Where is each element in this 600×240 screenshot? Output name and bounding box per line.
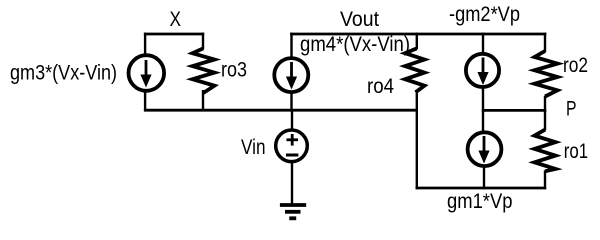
node P rail	[482, 109, 546, 112]
wire gm2-gm1 vertical	[482, 87, 484, 133]
svg-text:ro1: ro1	[564, 140, 588, 163]
wire Vin bottom lead	[291, 161, 293, 205]
current source gm3 (circle)	[129, 55, 165, 91]
svg-text:gm4*(Vx-Vin): gm4*(Vx-Vin)	[300, 33, 410, 56]
wire ro2 bottom lead	[544, 96, 546, 112]
current source gm4 (circle)	[274, 58, 308, 92]
svg-text:gm1*Vp: gm1*Vp	[447, 190, 513, 213]
current source gm2 arrow	[482, 58, 485, 75]
current source gm1 (circle)	[468, 132, 502, 166]
resistor ro1	[535, 130, 556, 172]
wire ro4 bottom lead down to bottom rail	[416, 91, 418, 189]
ground	[280, 203, 306, 207]
wire Vin top lead	[291, 110, 293, 130]
current source gm1 arrow	[483, 136, 486, 153]
wire gm1 bottom lead	[483, 166, 485, 189]
wire ro2 top lead	[544, 33, 546, 52]
wire ro4 top lead	[416, 33, 418, 49]
current source gm2 (circle)	[466, 54, 499, 87]
wire X rail top-left	[144, 33, 204, 36]
wire gm4 top lead	[290, 33, 292, 58]
resistor ro2	[535, 51, 558, 97]
resistor ro4	[405, 48, 425, 92]
wire middle-left rail	[144, 109, 418, 112]
wire gm3 bottom lead	[144, 90, 146, 111]
svg-text:ro2: ro2	[563, 54, 588, 77]
svg-text:Vin: Vin	[241, 136, 266, 159]
svg-text:-gm2*Vp: -gm2*Vp	[449, 3, 520, 26]
svg-text:gm3*(Vx-Vin): gm3*(Vx-Vin)	[10, 62, 117, 85]
wire gm2 top lead	[482, 33, 484, 54]
Vin plus sign	[287, 138, 299, 141]
wire bottom rail	[416, 187, 547, 190]
svg-text:ro4: ro4	[367, 75, 394, 98]
wire gm4 bottom lead	[290, 92, 292, 111]
wire gm3 top lead	[144, 33, 146, 55]
current source gm3 arrow	[145, 60, 148, 77]
wire Vout rail	[290, 33, 546, 36]
svg-text:X: X	[170, 8, 182, 31]
current source gm4 arrow	[290, 62, 293, 79]
Vin minus sign	[286, 154, 298, 157]
svg-text:ro3: ro3	[221, 58, 247, 81]
resistor ro3	[193, 49, 215, 94]
wire ro3 top lead	[202, 33, 204, 50]
wire ro1 bottom lead	[544, 171, 546, 190]
svg-text:Vout: Vout	[340, 8, 379, 31]
svg-text:P: P	[566, 98, 577, 121]
wire ro3 bottom lead	[202, 90, 204, 111]
voltage source Vin (circle)	[276, 130, 308, 162]
wire ro1 top lead	[544, 109, 546, 130]
